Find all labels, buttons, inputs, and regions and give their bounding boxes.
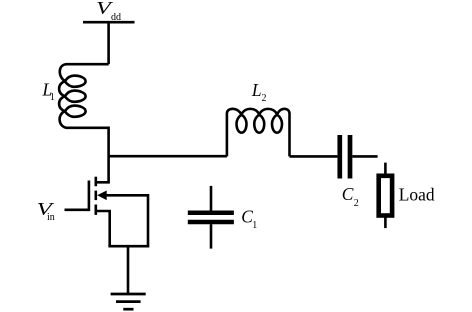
capacitor C1 xyxy=(210,186,213,211)
transistor M1 gate bar xyxy=(88,181,91,212)
capacitor C2 xyxy=(337,135,342,179)
transistor M1 source stub xyxy=(96,211,110,246)
ground xyxy=(111,293,146,296)
label Vdd xyxy=(96,0,121,23)
svg-text:C: C xyxy=(342,184,354,204)
transistor M1 body lead xyxy=(106,195,149,246)
wire ground stem xyxy=(127,246,130,294)
svg-text:L: L xyxy=(251,80,262,100)
wire drain rail (L1 bottom to MOSFET drain) xyxy=(96,127,109,183)
label Vin xyxy=(37,199,56,223)
wire Vdd stem xyxy=(107,22,110,64)
svg-text:dd: dd xyxy=(111,12,121,23)
wire main horizontal node xyxy=(109,155,227,158)
transistor M1 channel segment top xyxy=(95,177,98,187)
svg-text:1: 1 xyxy=(252,220,257,231)
transistor M1 channel segment bottom xyxy=(95,205,98,215)
svg-text:2: 2 xyxy=(354,198,359,209)
transistor M1 body arrow xyxy=(97,191,107,201)
wire source-body bottom xyxy=(108,245,149,248)
inductor L2 xyxy=(227,109,290,157)
label L2 xyxy=(251,80,267,104)
wire L2 to C2 xyxy=(290,155,338,158)
label C2 xyxy=(342,184,359,209)
wire C2 to load xyxy=(352,155,377,158)
inductor L1 xyxy=(59,64,108,128)
svg-text:1: 1 xyxy=(50,92,55,103)
Vdd supply bar xyxy=(83,21,135,24)
load lead top xyxy=(384,163,387,174)
load lead bottom xyxy=(384,218,387,229)
transistor M1 gate lead xyxy=(65,209,89,212)
label C1 xyxy=(241,206,257,231)
resistor Load xyxy=(379,176,392,216)
label L1 xyxy=(42,79,55,103)
svg-text:in: in xyxy=(47,212,55,223)
svg-text:2: 2 xyxy=(262,93,267,104)
transistor M1 channel segment middle xyxy=(95,191,98,201)
svg-text:Load: Load xyxy=(399,185,435,205)
